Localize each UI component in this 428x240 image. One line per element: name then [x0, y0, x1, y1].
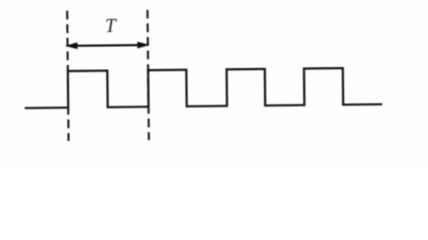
- dashed line left (period start marker): [67, 11, 68, 141]
- square wave trace: [24, 68, 382, 108]
- period arrow (double-headed, T): [66, 42, 149, 49]
- svg-text:T: T: [105, 16, 117, 37]
- dashed line right (period end marker): [147, 10, 148, 140]
